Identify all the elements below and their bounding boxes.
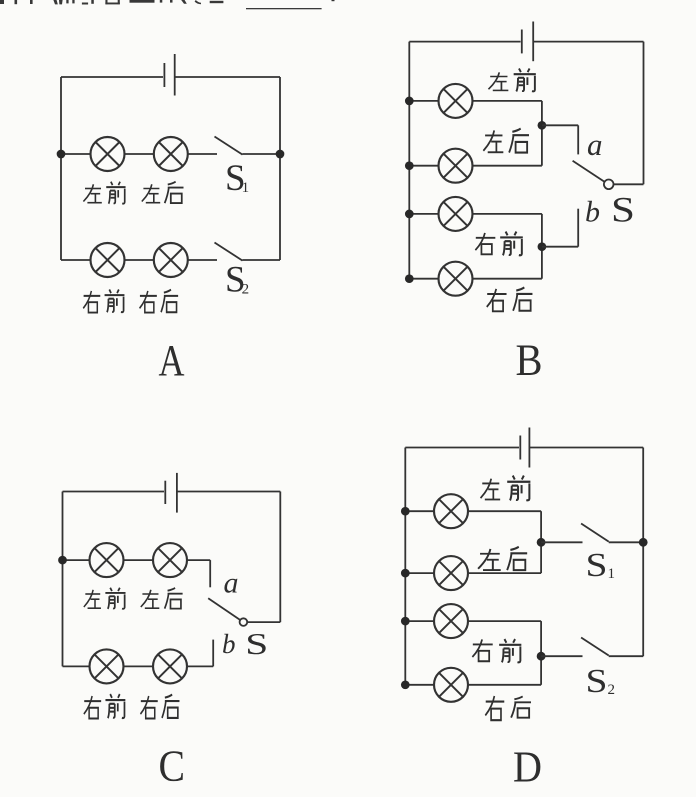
wire A bottom branch segment 4 [243,259,281,261]
wire B pivot to right vertical [614,183,644,185]
svg-text:b: b [222,629,236,659]
svg-text:D: D [513,743,542,792]
battery C long plate [176,473,178,513]
lamp 左前 (D) [434,494,468,528]
wire C pivot to right vertical [248,621,281,623]
node B vert row3 [405,210,414,219]
wire D S2 left segment [541,655,582,657]
wire D lamp1 out [468,510,541,512]
wire B lamp1 out [473,100,542,102]
contact b stub (B) [577,209,579,247]
label 右后 (B) [487,287,533,311]
switch S2 blade (D) [581,638,609,656]
switch S blade (B) [573,161,606,183]
wire B lamp3 feed [409,213,438,215]
lamp 右后 (B) [439,262,473,296]
wire A top-right [175,76,280,78]
label 左后 (A) [142,182,184,203]
switch S1 blade (D) [581,524,609,542]
battery C short plate [164,481,166,504]
wire D lamp2 out [468,572,541,574]
answer blank underline [246,8,322,9]
wire D lamp3 out [468,620,541,622]
switch S blade (C) [208,598,240,620]
wire B pair1 connector vertical [541,101,543,166]
contact b stub (C) [212,640,214,667]
lamp 左后 (D) [434,556,468,590]
wire C middle branch segment 2 [124,559,154,561]
wire B pair2 connector vertical [541,214,543,279]
wire B right vertical [643,42,645,185]
node A right junction [276,150,285,159]
wire D lamp4 feed [405,684,434,686]
label 右前 (C) [84,694,125,718]
lamp 右前 (D) [434,604,468,638]
wire B lamp4 out [473,278,542,280]
wire A middle branch segment 4 [243,153,281,155]
node B pair2 junction [538,242,547,251]
label 左后 (C) [141,588,183,609]
wire D S2 right segment [609,655,644,657]
lamp 右后 (A) [154,243,188,277]
svg-text:a: a [224,567,239,600]
node D pair1 junction [537,538,546,547]
battery B long plate [532,22,534,62]
wire B lamp1 feed [409,100,438,102]
node D vert row1 [401,507,410,516]
wire D right vertical [642,448,644,657]
wire A left vertical [60,77,62,260]
svg-text:S: S [245,626,268,661]
switch S1 blade [215,137,243,155]
wire C bottom branch segment 1 [63,665,90,667]
battery B short plate [521,30,523,54]
label 左前 (D) [481,476,531,501]
svg-text:A: A [159,336,185,385]
battery A short plate [163,63,165,87]
node B vert row4 [405,274,414,283]
node D vert row3 [401,617,410,626]
wire A right vertical [279,77,281,260]
wire C bottom branch segment 3 [187,665,213,667]
label 左前 (A) [83,182,125,204]
wire A bottom branch segment 3 [188,259,217,261]
node D vert row4 [401,680,410,689]
svg-text:S1: S1 [586,547,616,584]
lamp 左后 (C) [153,543,187,577]
label 右后 (D) [485,696,531,720]
wire D top-right [529,447,643,449]
lamp 左前 (B) [439,84,473,118]
label 左后 (D) [478,547,527,570]
node D S1 right junction [639,538,648,547]
wire A top-left [61,76,163,78]
wire D top-left [405,447,519,449]
wire B lamp4 feed [409,278,438,280]
lamp 左后 (A) [154,137,188,171]
wire C bottom branch segment 2 [124,665,154,667]
wire D left vertical [404,448,406,685]
wire C middle branch segment 1 [63,559,90,561]
wire A bottom branch segment 1 [61,259,91,261]
label 左后 (B) [483,129,529,153]
wire C right vertical [279,492,281,623]
contact a stub (C) [209,560,211,587]
label 右前 (A) [83,290,124,313]
wire B lamp2 out [473,165,542,167]
wire C left vertical [62,492,64,667]
contact a stub (B) [577,125,579,154]
lamp 右前 (C) [90,649,124,683]
node B vert row2 [405,161,414,170]
wire C middle branch segment 3 [187,559,210,561]
battery D long plate [528,428,530,468]
node C left junction [58,556,67,565]
wire A bottom branch segment 2 [125,259,154,261]
wire B contact-a horizontal [542,124,578,126]
switch S pivot circle (C) [240,618,248,626]
wire B top-right [533,41,643,43]
node B pair1 junction [538,121,547,130]
switch S pivot circle (B) [604,180,614,190]
node B vert row1 [405,97,414,106]
svg-text:S2: S2 [586,663,616,700]
wire C top-right [177,491,280,493]
label 右前 (D) [472,639,521,662]
wire B top-left [409,41,520,43]
wire D lamp4 out [468,684,541,686]
svg-text:S1: S1 [225,158,249,199]
wire D S1 right segment [609,541,644,543]
label 左前 (C) [84,588,126,609]
wire D lamp1 feed [405,510,434,512]
wire D lamp2 feed [405,572,434,574]
clipped character fragments [0,0,223,5]
wire A middle branch segment 2 [125,153,154,155]
svg-text:S2: S2 [225,259,249,300]
wire A middle branch segment 1 [61,153,91,155]
svg-text:b: b [585,196,600,229]
wire D pair1 connector vertical [540,511,542,573]
lamp 右前 (A) [91,243,125,277]
wire B lamp3 out [473,213,542,215]
wire B lamp2 feed [409,165,438,167]
wire D lamp3 feed [405,620,434,622]
wire D pair2 connector vertical [540,621,542,685]
svg-text:a: a [587,127,603,162]
lamp 左后 (B) [439,149,473,183]
battery D short plate [519,436,521,460]
lamp 右后 (C) [153,649,187,683]
lamp 左前 (A) [91,137,125,171]
switch S2 blade [215,243,243,261]
label 左前 (B) [488,69,535,92]
node D pair2 junction [537,652,546,661]
svg-text:B: B [516,336,543,385]
node D vert row2 [401,569,410,578]
svg-text:S: S [611,189,635,229]
label 右后 (C) [140,695,179,719]
lamp 右后 (D) [434,668,468,702]
lamp 右前 (B) [439,197,473,231]
wire B contact-b horizontal [542,246,578,248]
node A left junction [57,150,66,159]
wire B left vertical [408,42,410,279]
clipped full-stop mark [332,0,335,1]
wire C top-left [63,491,165,493]
label 右前 (B) [475,232,522,256]
wire D S1 left segment [541,541,582,543]
label 右后 (A) [140,290,179,313]
wire A middle branch segment 3 [188,153,217,155]
lamp 左前 (C) [90,543,124,577]
battery A long plate [174,54,176,96]
svg-text:C: C [159,742,186,791]
